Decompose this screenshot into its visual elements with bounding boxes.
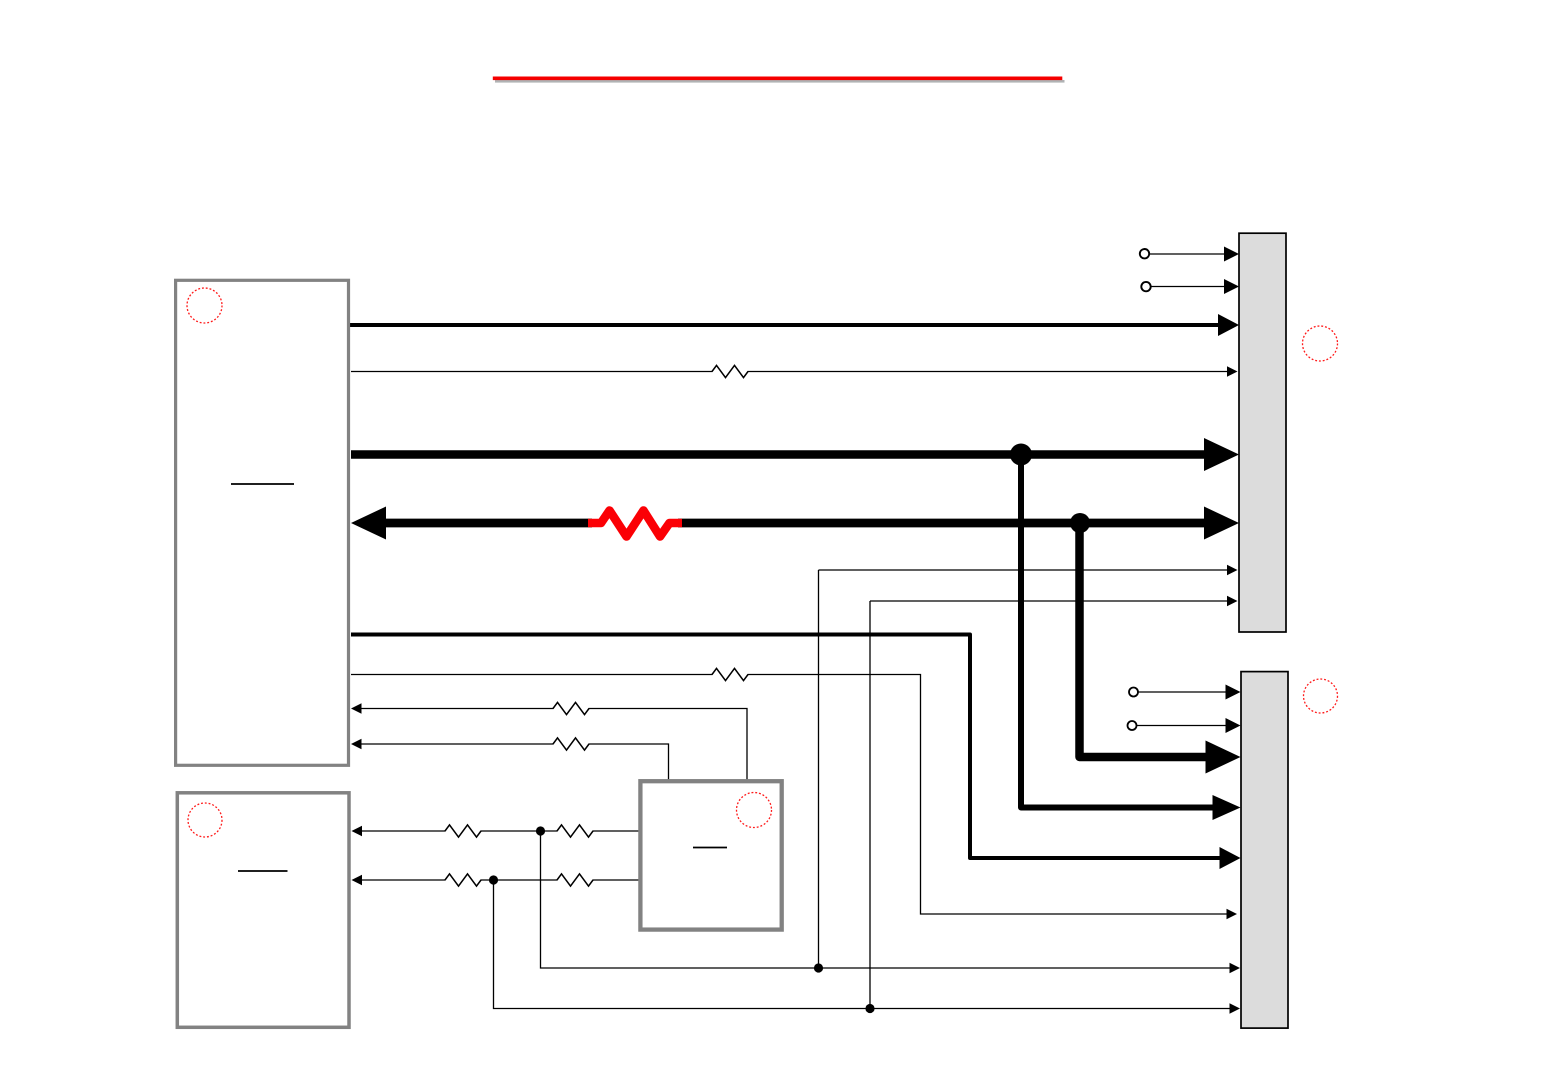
resistor R1 — [712, 365, 748, 377]
connector J1 — [1239, 233, 1286, 632]
junction net15 — [536, 826, 545, 835]
U2 label underline — [238, 870, 288, 872]
title underline — [493, 77, 1063, 81]
wire net 12 : U1 to J2 through resistor R3 — [351, 675, 1237, 920]
wire net 9 : terminal to J2 pin1 — [1129, 685, 1241, 700]
wire net 7 : feedback line to J1 — [819, 565, 1238, 575]
U3 label underline — [693, 847, 727, 849]
wire net 6 branch : thick bus down to J2 — [1080, 523, 1241, 774]
wire net 4 : U1 to J1 through resistor R1 — [351, 366, 1238, 376]
IC U1 — [176, 280, 349, 765]
wire net 5 : U1 to J1 (thick bus) — [351, 438, 1239, 471]
wire net 6 : bidirectional thick bus U1 to J1 — [351, 507, 1239, 540]
IC U2 — [177, 793, 349, 1028]
wire net 14 : U1 input through resistor R5 to U3 — [351, 739, 669, 780]
wire net 10 : terminal to J2 pin2 — [1128, 718, 1241, 733]
U1 label underline — [231, 483, 294, 485]
resistor R7 — [557, 825, 593, 837]
J1 marker circle — [1303, 326, 1338, 361]
net 16 branch up to J1 — [869, 601, 871, 1009]
module U3 — [640, 781, 781, 929]
resistor R3 — [712, 668, 748, 680]
junction net16 b — [865, 1004, 874, 1013]
wire net 13 : U1 input through resistor R4 to U3 — [351, 703, 747, 780]
wire net 1 : terminal to J1 pin1 — [1140, 247, 1239, 262]
U1 marker circle — [187, 288, 222, 323]
junction on net 5 — [1010, 444, 1032, 466]
resistor R5 — [553, 738, 589, 750]
connector J2 — [1241, 672, 1288, 1029]
title underline shadow — [495, 80, 1065, 83]
resistor R6 — [445, 825, 481, 837]
net 16 branch down to J2 — [494, 880, 1241, 1014]
resistor R2 (red power resistor) — [588, 511, 682, 537]
U3 marker circle — [737, 793, 772, 828]
junction net16 — [489, 875, 498, 884]
wire net 8 : feedback line to J1 — [870, 596, 1238, 606]
wire net 15 : U2 line A through resistors R6 R7 — [352, 826, 643, 836]
junction on net 6 — [1070, 513, 1090, 533]
wire net 5 branch : bus down to J2 — [1021, 455, 1241, 821]
net 15 branch up to J1 — [818, 570, 820, 968]
wire net 16 : U2 line B through resistors R8 R9 — [352, 875, 643, 885]
resistor R8 — [445, 874, 481, 886]
wire net 2 : terminal to J1 pin2 — [1141, 279, 1239, 294]
junction net15 b — [814, 963, 823, 972]
wire net 3 : U1 to J1 (medium bus) — [349, 314, 1239, 336]
resistor R4 — [553, 702, 589, 714]
wire net 11 : U1 bus routed to J2 — [351, 635, 1241, 870]
net 15 branch down to J2 — [541, 831, 1241, 973]
U2 marker circle — [188, 803, 222, 837]
resistor R9 — [557, 874, 593, 886]
J2 marker circle — [1304, 679, 1338, 713]
